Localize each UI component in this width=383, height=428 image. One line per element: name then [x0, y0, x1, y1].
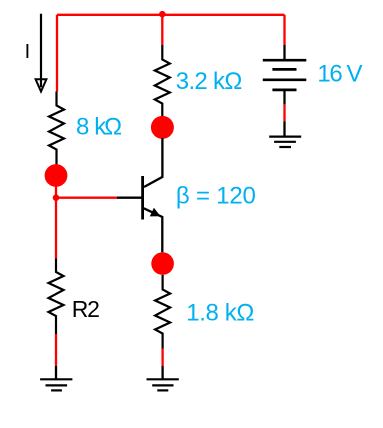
svg-text:R2: R2	[72, 296, 99, 322]
resistor R2	[49, 259, 64, 335]
current arrow I	[36, 14, 47, 92]
wire: collector branch vertical (red)	[161, 15, 163, 45]
wire: left branch vertical (red)	[56, 15, 58, 92]
node: big red dot on collector branch	[151, 116, 174, 139]
svg-text:β = 120: β = 120	[176, 183, 256, 210]
svg-text:16 V: 16 V	[317, 61, 362, 88]
wire: battery branch vertical (red)	[283, 15, 285, 45]
resistor 8 kOhm	[49, 92, 64, 165]
wire: R2 to ground red segment	[55, 334, 57, 366]
transistor Q1 emitter arrow	[150, 208, 161, 217]
svg-text:1.8 kΩ: 1.8 kΩ	[186, 300, 254, 327]
node: base junction dot	[53, 194, 60, 201]
wire: dot to base junction (red)	[55, 185, 57, 198]
ground (right, under battery)	[269, 137, 301, 147]
battery B1 16 V plates	[263, 60, 307, 90]
wire: battery bottom lead black upper	[283, 91, 285, 104]
svg-text:3.2 kΩ: 3.2 kΩ	[176, 68, 242, 95]
wire: left branch down to R2 (red)	[55, 198, 57, 259]
wire: R2 ground lead black	[55, 366, 57, 380]
node: top junction dot	[159, 11, 166, 18]
transistor Q1 base bar	[141, 176, 144, 220]
wire: battery ground lead black	[283, 121, 285, 136]
wire: emitter ground lead black	[161, 366, 163, 379]
node: big red dot on left branch	[45, 164, 68, 187]
resistor 1.8 kOhm	[155, 275, 170, 349]
svg-text:8kΩ: 8kΩ	[76, 114, 121, 141]
resistor 3.2 kOhm	[155, 45, 170, 117]
wire: base wire black segment	[117, 197, 143, 199]
wire: battery top lead black	[283, 45, 285, 59]
ground (left, under R2)	[40, 379, 72, 390]
svg-text:I: I	[25, 41, 31, 63]
wire: battery bottom lead red segment	[283, 104, 285, 121]
ground (middle, under 1.8 kOhm)	[147, 379, 179, 390]
node: big red dot on emitter branch	[151, 252, 174, 275]
wire: base wire red segment	[56, 197, 117, 199]
wire: emitter resistor to ground red segment	[161, 349, 163, 367]
wire: top supply rail	[57, 14, 285, 16]
transistor Q1 emitter	[144, 208, 163, 252]
wire: collector lead	[144, 138, 162, 187]
